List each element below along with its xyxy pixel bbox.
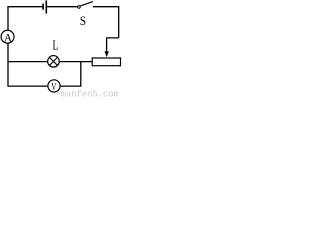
svg-text:A: A [4, 31, 13, 44]
switch S: open blade [80, 2, 93, 6]
watermark text manfen5.com [61, 89, 119, 99]
rheostat slider arrow head [105, 51, 109, 57]
lamp L: cross X [50, 57, 58, 65]
svg-text:L: L [52, 38, 58, 53]
rheostat resistor body box [92, 58, 120, 66]
battery cell: short thick negative plate [42, 4, 44, 10]
label A (inside ammeter) [4, 31, 13, 44]
switch S: pivot contact circle [78, 6, 81, 9]
wire: left rail from ammeter down to bottom corner and to voltmeter [8, 44, 48, 87]
wire: jog to rheostat slider stem [107, 38, 119, 52]
svg-text:V: V [51, 81, 57, 92]
wire: voltmeter right to branch junction and up to node on lamp-rheostat wire [60, 62, 80, 87]
label L [52, 38, 58, 53]
svg-text:manfen5.com: manfen5.com [61, 89, 119, 98]
svg-text:S: S [80, 13, 86, 28]
label V (inside voltmeter) [51, 81, 57, 92]
battery cell: long positive plate [45, 0, 47, 13]
wire: rheostat left terminal to lamp [60, 61, 93, 63]
wire: lamp to left rail [8, 61, 47, 63]
wire: battery to switch [47, 6, 77, 8]
voltmeter V: circle [48, 80, 60, 92]
wire: switch to top-right corner and down right rail [93, 7, 119, 38]
ammeter A: circle [1, 30, 14, 43]
lamp L: circle [48, 56, 60, 68]
wire: left rail up from ammeter and top wire to battery [8, 7, 43, 31]
label S [80, 13, 86, 28]
